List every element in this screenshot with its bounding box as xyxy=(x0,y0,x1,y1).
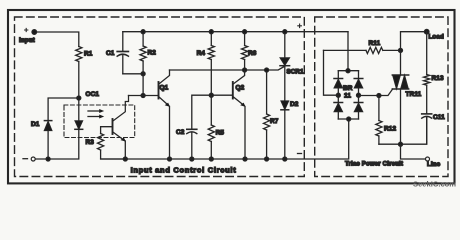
junction dot: bridge top node xyxy=(346,69,350,73)
svg-text:C11: C11 xyxy=(433,114,445,121)
triac TR11 xyxy=(359,50,422,144)
outer solid border frame xyxy=(8,10,455,183)
wire: R6 bottom to gate line xyxy=(244,60,246,71)
optocoupler OC1 dashed package box xyxy=(64,91,135,137)
svg-text:R3: R3 xyxy=(86,139,95,146)
resistor R2 xyxy=(140,32,156,61)
junction dot: R4 top on rail xyxy=(209,30,213,34)
capacitor C2 xyxy=(176,95,211,159)
svg-text:Q1: Q1 xyxy=(160,85,169,92)
wire: input terminal to R1 top xyxy=(37,32,79,47)
wire: Q2 emitter to bottom rail xyxy=(244,107,246,160)
transistor Q1 xyxy=(143,70,170,107)
junction dot: R2 top on rail xyxy=(141,30,145,34)
wire: Q1 emitter to bottom rail xyxy=(169,107,171,160)
junction dot: R6 top on rail xyxy=(243,30,247,34)
wire: node to OC1 collector xyxy=(129,95,144,97)
junction dot: OC1 emitter on rail xyxy=(123,157,127,161)
junction dot: R6/Q2 collector on gate line xyxy=(243,68,247,72)
resistor R4 xyxy=(197,32,215,60)
SCR1 (anode up, gate left) xyxy=(280,32,304,101)
svg-text:D1: D1 xyxy=(31,121,40,128)
+ polarity label at divider xyxy=(298,24,302,28)
capacitor C11 xyxy=(422,85,445,144)
resistor R12 xyxy=(376,96,397,145)
phototransistor of OC1 xyxy=(101,96,129,142)
wire: R3 bottom to rail corner xyxy=(101,150,126,159)
svg-text:D2: D2 xyxy=(290,101,299,108)
svg-text:R1: R1 xyxy=(84,51,93,58)
Triac Power Circuit dashed box xyxy=(315,17,448,177)
svg-text:Q2: Q2 xyxy=(236,85,245,92)
junction dot: R12 top on gate wire xyxy=(377,94,381,98)
junction dot: D2 on rail xyxy=(283,157,287,161)
svg-text:TR11: TR11 xyxy=(406,91,422,98)
svg-text:C1: C1 xyxy=(106,50,115,57)
transistor Q2 xyxy=(211,70,245,107)
svg-text:R6: R6 xyxy=(248,50,257,57)
resistor R1 xyxy=(76,47,93,62)
junction dot: C1/R2 xyxy=(141,72,145,76)
svg-text:BR: BR xyxy=(343,85,353,92)
Load terminal xyxy=(424,29,444,40)
junction dot: bridge left AC node xyxy=(336,93,340,97)
junction dot: R4/R5/C2/Q2-base node xyxy=(209,93,213,97)
svg-text:Line: Line xyxy=(427,161,441,168)
svg-text:Input and Control Circuit: Input and Control Circuit xyxy=(131,166,237,175)
junction dot: Q2 emitter on rail xyxy=(243,157,247,161)
LED of OC1 (pointing down) xyxy=(75,98,83,129)
wire: minus terminal to LED cathode column (isolated input net) xyxy=(35,129,79,159)
junction dot: Q1 emitter on rail xyxy=(168,157,172,161)
svg-text:R11: R11 xyxy=(369,40,381,47)
- input terminal xyxy=(23,157,35,161)
wire: plus rail corner down to bridge top node xyxy=(347,32,349,71)
Input and Control Circuit dashed box xyxy=(15,17,305,177)
junction dot: TR11 MT1 / snubber node xyxy=(399,142,403,146)
junction dot: R11 / TR11 MT2 node xyxy=(399,48,403,52)
svg-text:R7: R7 xyxy=(270,118,279,125)
Line terminal xyxy=(426,157,441,168)
resistor R3 xyxy=(86,134,104,151)
svg-text:R13: R13 xyxy=(432,75,444,82)
junction dot: R5 on rail xyxy=(209,157,213,161)
wire: C1 bottom to R2 column xyxy=(123,73,143,75)
wire: node to D1 top xyxy=(48,98,79,121)
svg-text:Input: Input xyxy=(19,37,35,44)
wire: D1 bottom to minus rail xyxy=(47,131,49,159)
junction dot: R2/OC1-collector/Q1-base node xyxy=(141,94,145,98)
svg-text:R2: R2 xyxy=(148,50,157,57)
svg-text:Load: Load xyxy=(429,34,444,41)
wire: node up and right to Load terminal xyxy=(401,32,425,51)
diode D1 (cathode up) xyxy=(31,121,52,131)
resistor R6 xyxy=(242,32,257,60)
junction dot: R7 top on gate line xyxy=(265,68,269,72)
light arrows from LED to phototransistor xyxy=(88,109,104,119)
wire: R1 bottom to node xyxy=(78,62,80,99)
svg-text:R4: R4 xyxy=(197,50,206,57)
wire: OC1 emitter to bottom rail xyxy=(124,141,126,159)
junction dot: bridge right AC node xyxy=(357,93,361,97)
svg-text:R12: R12 xyxy=(384,126,396,133)
junction dot: SCR1 anode on rail xyxy=(283,30,287,34)
svg-text:OC1: OC1 xyxy=(86,91,100,98)
wire: R4 bottom crossing gate line to Q2 base node xyxy=(210,60,212,96)
wire: MT1 node down to Line terminal xyxy=(401,144,426,159)
resistor R5 xyxy=(208,95,224,159)
wire: R12 bottom to C11 bottom (snubber return) xyxy=(379,117,427,144)
svg-text:SCR1: SCR1 xyxy=(287,69,305,76)
wire: R2 bottom to base node xyxy=(142,61,144,96)
junction dot: D1 on minus wire xyxy=(46,157,50,161)
svg-text:R5: R5 xyxy=(216,130,225,137)
bottom common rail (control side) through divider to bridge minus xyxy=(101,119,349,159)
resistor R11 (horizontal) xyxy=(324,40,401,54)
junction dot: C2 on rail xyxy=(190,157,194,161)
resistor R13 xyxy=(424,32,444,85)
- polarity label at divider xyxy=(298,153,302,155)
wire: bridge left node to load column xyxy=(324,50,339,95)
capacitor C1 xyxy=(106,32,128,74)
junction dot: R7 on rail xyxy=(265,157,269,161)
svg-text:Triac Power Circuit: Triac Power Circuit xyxy=(345,161,403,168)
node: R1 / D1 / LED junction xyxy=(77,96,81,100)
svg-text:11: 11 xyxy=(344,92,351,99)
junction dot: bridge bottom node xyxy=(347,117,351,121)
top plus rail xyxy=(123,31,348,33)
svg-text:C2: C2 xyxy=(176,129,185,136)
resistor R7 xyxy=(264,70,279,159)
svg-text:SeekIC.com: SeekIC.com xyxy=(413,180,456,189)
gate line: Q1 collector to SCR1 gate xyxy=(170,66,285,70)
diode D2 (pointing down) xyxy=(281,101,299,159)
bridge rectifier BR11 xyxy=(334,71,363,119)
+ input terminal xyxy=(19,28,37,44)
